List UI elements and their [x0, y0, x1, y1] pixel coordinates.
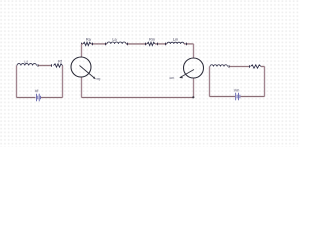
wire: field loop left side — [16, 66, 18, 98]
resistor Rm — [145, 43, 147, 46]
machine M (motor) — [184, 58, 204, 78]
label wm — [169, 77, 174, 79]
wire: field loop bottom — [17, 97, 36, 99]
wire: motor field bottom — [210, 96, 236, 98]
wire: left drop to generator — [81, 44, 83, 57]
resistor Ra — [83, 42, 91, 45]
battery Vm — [235, 93, 237, 101]
wire: motor field left side — [209, 67, 211, 97]
wire: right drop to motor — [193, 44, 195, 58]
machine G (generator) — [71, 57, 91, 77]
inductor Lm — [165, 43, 167, 46]
battery Vf — [35, 94, 37, 102]
wire: field loop top segment — [38, 65, 52, 67]
wire: motor bottom drop — [193, 78, 195, 98]
resistor Rf — [51, 64, 53, 67]
wire: armature bottom run — [82, 97, 194, 99]
wire: armature top chain segments — [82, 43, 84, 45]
wire: motor field top segment — [229, 66, 250, 68]
wire: motor field right side — [264, 67, 266, 97]
node: chain left junction — [81, 43, 83, 46]
inductor Lf — [17, 64, 37, 66]
resistor Rmf — [249, 65, 251, 68]
node: motor bottom junction — [192, 96, 194, 98]
wire: generator bottom drop — [81, 77, 83, 98]
inductor Lmf — [210, 65, 228, 67]
inductor La — [105, 43, 107, 46]
wire: field loop right side — [62, 66, 64, 98]
shaft arrow wm — [180, 70, 194, 78]
label wg — [96, 78, 100, 80]
shaft arrow wg — [80, 66, 96, 79]
